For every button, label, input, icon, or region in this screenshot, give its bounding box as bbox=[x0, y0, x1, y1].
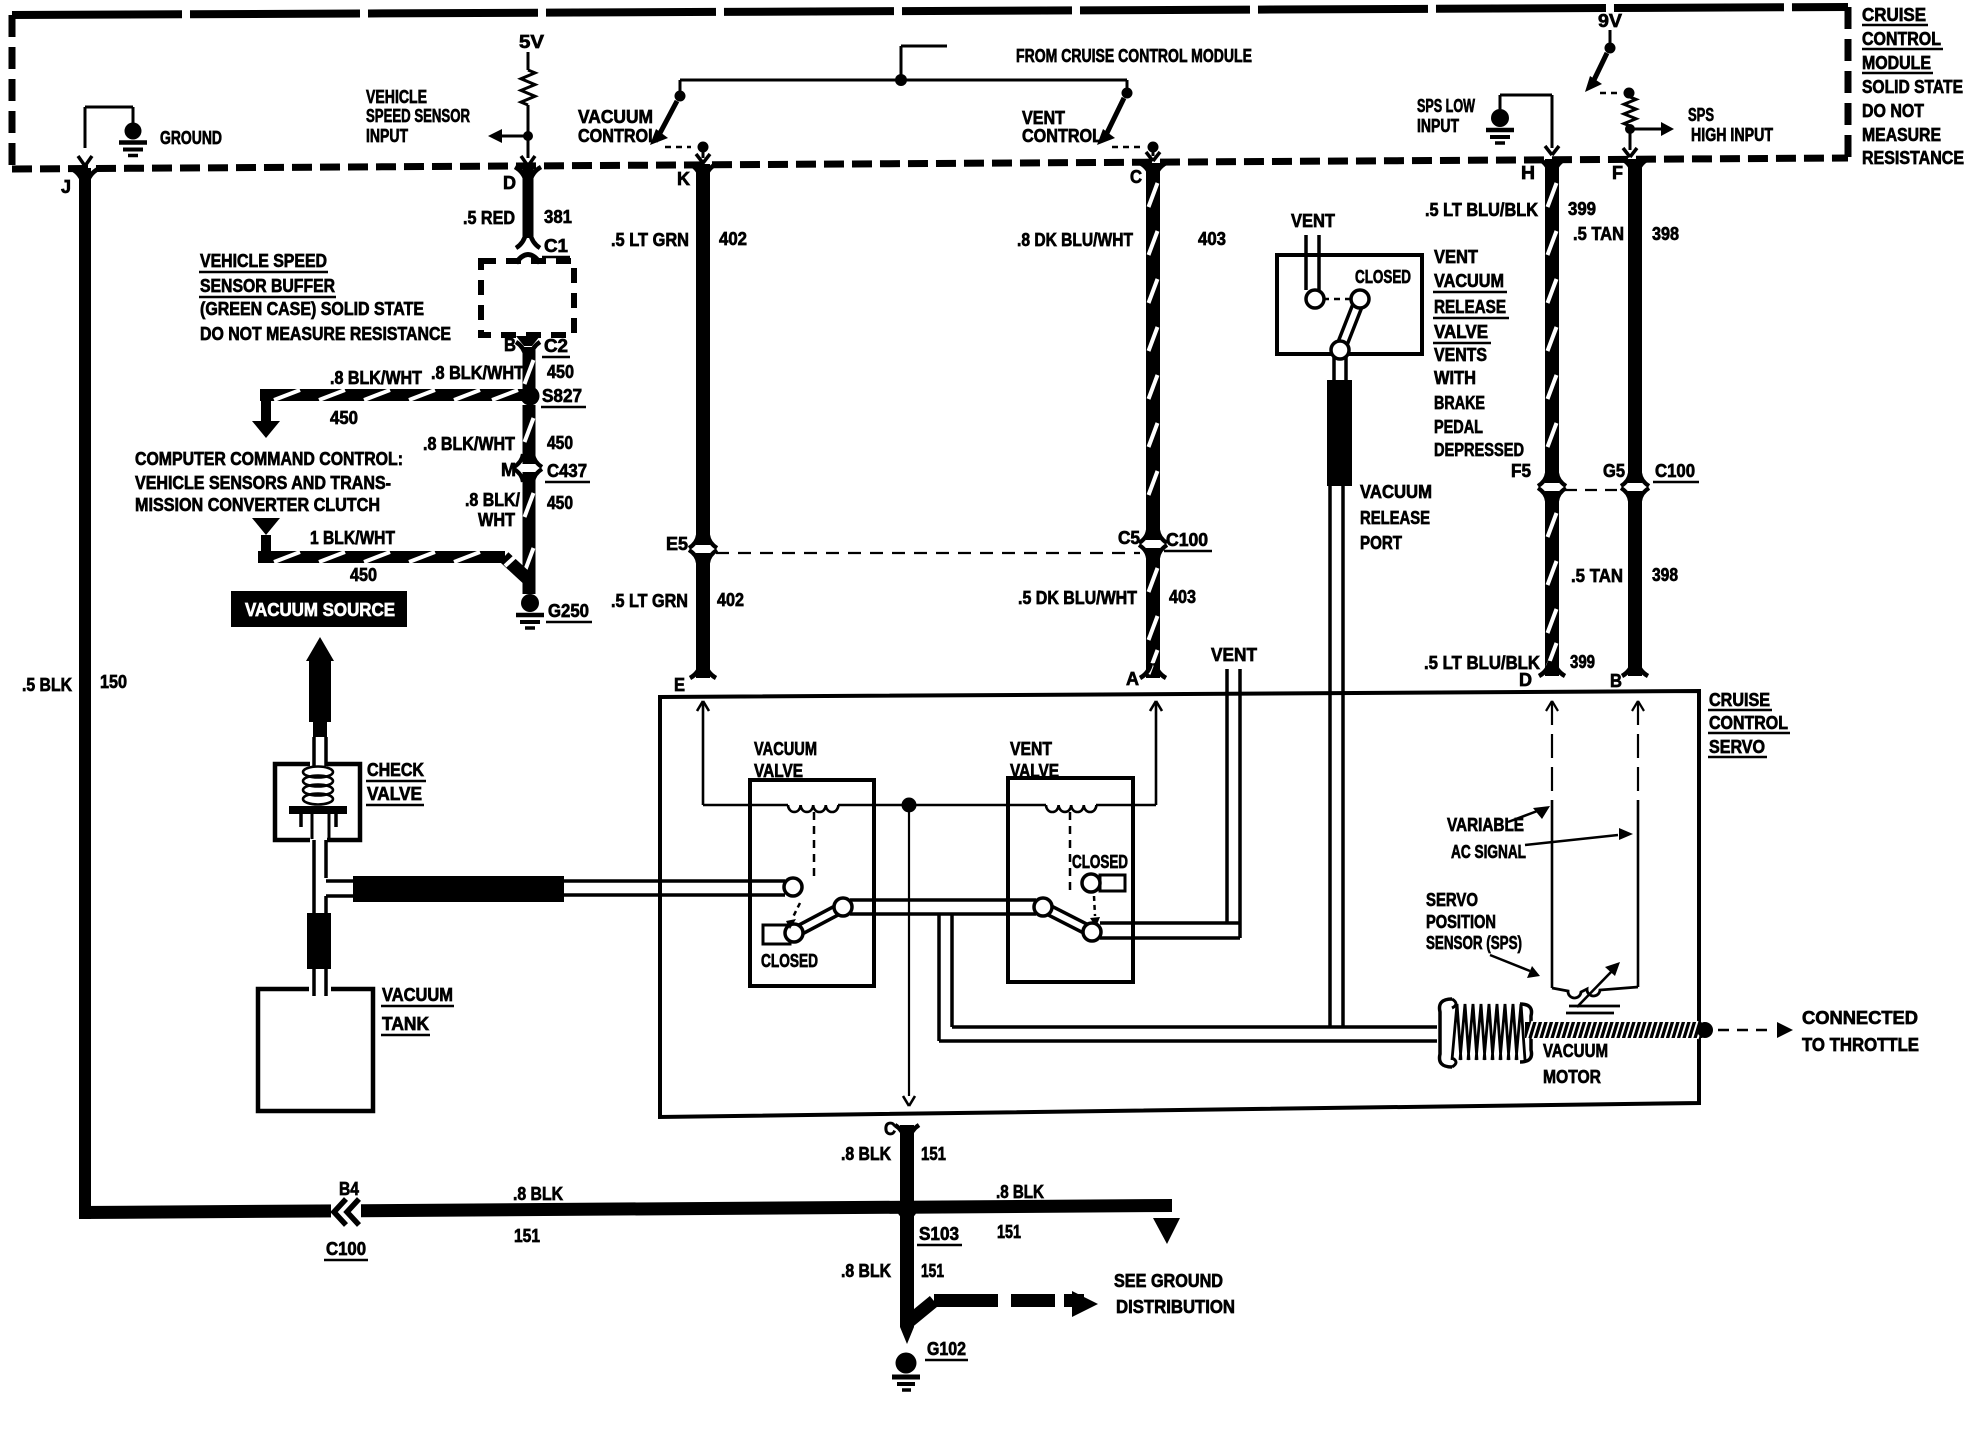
vehicle speed sensor buffer box bbox=[481, 261, 574, 335]
svg-text:.5 TAN: .5 TAN bbox=[1573, 224, 1624, 244]
connector G5 C100 bbox=[1603, 461, 1699, 501]
ground symbol module bbox=[78, 107, 222, 166]
terminal F bbox=[1612, 159, 1648, 183]
svg-text:VENT: VENT bbox=[1010, 739, 1052, 759]
svg-text:SPEED SENSOR: SPEED SENSOR bbox=[366, 106, 470, 126]
svg-text:E: E bbox=[674, 675, 685, 695]
svg-text:DEPRESSED: DEPRESSED bbox=[1434, 440, 1524, 460]
vent valve mechanism bbox=[1043, 852, 1128, 932]
wire 450 1 BLK/WHT horizontal from computer command control bbox=[252, 518, 530, 585]
svg-text:INPUT: INPUT bbox=[366, 126, 408, 146]
svg-text:POSITION: POSITION bbox=[1426, 912, 1496, 932]
svg-text:CONTROL: CONTROL bbox=[1022, 126, 1102, 146]
svg-text:C100: C100 bbox=[1166, 530, 1208, 550]
vehicle speed sensor input arrow bbox=[366, 87, 535, 166]
computer command control text bbox=[135, 449, 403, 515]
wire 399 .5 LT BLU/BLK upper bbox=[1425, 159, 1596, 483]
svg-text:B: B bbox=[1610, 671, 1622, 691]
ground G250 bbox=[516, 594, 592, 628]
connector C5 C100 bbox=[1118, 528, 1212, 558]
ground SPS low input bbox=[1417, 95, 1559, 155]
svg-text:RESISTANCE: RESISTANCE bbox=[1862, 148, 1964, 168]
connector C2 terminal B bbox=[504, 335, 570, 357]
svg-text:DO NOT MEASURE RESISTANCE: DO NOT MEASURE RESISTANCE bbox=[200, 324, 451, 344]
wire 151 right end arrow bbox=[1153, 1218, 1180, 1244]
svg-text:F5: F5 bbox=[1511, 461, 1531, 481]
vent vacuum release valve box bbox=[1277, 211, 1422, 354]
svg-text:.8 BLK/WHT: .8 BLK/WHT bbox=[431, 363, 524, 383]
svg-text:.8 BLK: .8 BLK bbox=[513, 1184, 563, 1204]
wire 450 .8 BLK/WHT (C437 to G250) bbox=[465, 472, 573, 594]
svg-text:CONTROL: CONTROL bbox=[1862, 29, 1941, 49]
svg-text:CRUISE: CRUISE bbox=[1862, 5, 1926, 25]
svg-text:151: 151 bbox=[514, 1226, 540, 1246]
svg-text:399: 399 bbox=[1568, 199, 1596, 219]
svg-text:.5 BLK: .5 BLK bbox=[22, 675, 72, 695]
svg-text:E5: E5 bbox=[666, 534, 688, 554]
svg-text:MEASURE: MEASURE bbox=[1862, 125, 1941, 145]
svg-text:C: C bbox=[884, 1119, 896, 1139]
svg-text:A: A bbox=[1126, 669, 1139, 689]
svg-text:MODULE: MODULE bbox=[1862, 53, 1931, 73]
svg-text:450: 450 bbox=[350, 565, 377, 585]
svg-text:VACUUM: VACUUM bbox=[1434, 271, 1504, 291]
svg-text:WITH: WITH bbox=[1434, 368, 1476, 388]
module label text bbox=[1862, 5, 1964, 168]
svg-text:.5 LT GRN: .5 LT GRN bbox=[611, 591, 688, 611]
svg-text:H: H bbox=[1521, 163, 1535, 183]
wire from cruise control module bbox=[680, 46, 1252, 86]
vacuum tank bbox=[258, 985, 454, 1111]
switch 9V SPS bbox=[1585, 11, 1773, 157]
connector E5 bbox=[666, 534, 717, 563]
svg-text:.8 BLK: .8 BLK bbox=[841, 1144, 891, 1164]
switch vacuum control bbox=[578, 80, 710, 163]
svg-text:D: D bbox=[503, 173, 516, 193]
vacuum release hose bbox=[1327, 380, 1352, 486]
svg-text:C2: C2 bbox=[544, 336, 568, 356]
svg-text:HIGH INPUT: HIGH INPUT bbox=[1691, 125, 1773, 145]
servo position sensor label bbox=[1426, 890, 1540, 978]
svg-text:C5: C5 bbox=[1118, 528, 1140, 548]
svg-text:CONTROL: CONTROL bbox=[578, 126, 658, 146]
svg-text:RELEASE: RELEASE bbox=[1360, 508, 1430, 528]
terminal C bbox=[1130, 163, 1166, 187]
svg-text:VEHICLE SPEED: VEHICLE SPEED bbox=[200, 251, 327, 271]
svg-text:403: 403 bbox=[1169, 587, 1196, 607]
valve pivot and closed contact bbox=[1306, 267, 1411, 381]
wire 402 .5 LT GRN lower bbox=[611, 553, 744, 678]
svg-text:TANK: TANK bbox=[382, 1014, 429, 1034]
terminal J bbox=[61, 169, 98, 197]
wire servo ground to C bbox=[903, 812, 915, 1106]
node coil junction bbox=[902, 798, 917, 813]
svg-text:CONTROL: CONTROL bbox=[1709, 713, 1788, 733]
solenoid vacuum valve bbox=[750, 739, 874, 986]
svg-text:.5 TAN: .5 TAN bbox=[1571, 566, 1623, 586]
svg-text:C100: C100 bbox=[326, 1239, 366, 1259]
wire C servo to S103 bbox=[841, 1119, 946, 1206]
svg-text:402: 402 bbox=[717, 590, 744, 610]
solenoid vent valve bbox=[1008, 739, 1133, 982]
wire 403 .8 DK BLU/WHT upper bbox=[1017, 163, 1226, 540]
resistor 5V pullup bbox=[519, 32, 544, 158]
servo position sensor wires D and B bbox=[1546, 701, 1644, 988]
svg-text:B4: B4 bbox=[339, 1179, 359, 1199]
terminal D bbox=[503, 167, 541, 193]
svg-text:450: 450 bbox=[330, 408, 358, 428]
terminal E servo bbox=[674, 663, 716, 695]
wire 399 .5 LT BLU/BLK lower bbox=[1424, 491, 1595, 676]
svg-text:CLOSED: CLOSED bbox=[761, 951, 818, 971]
connector C1 bbox=[516, 233, 570, 263]
svg-text:.8 DK BLU/WHT: .8 DK BLU/WHT bbox=[1017, 230, 1133, 250]
terminal H bbox=[1521, 159, 1565, 183]
wire 151 S103 down to G102 bbox=[841, 1213, 944, 1344]
svg-text:151: 151 bbox=[921, 1144, 946, 1164]
svg-text:.8 BLK/WHT: .8 BLK/WHT bbox=[423, 434, 515, 454]
splice S103 bbox=[897, 1199, 962, 1245]
tube check valve to vacuum valve port bbox=[564, 878, 802, 896]
svg-text:.5 LT BLU/BLK: .5 LT BLU/BLK bbox=[1425, 200, 1538, 220]
wire 398 .5 TAN upper bbox=[1573, 159, 1679, 483]
svg-text:J: J bbox=[61, 177, 71, 197]
svg-text:CRUISE: CRUISE bbox=[1709, 690, 1770, 710]
vacuum release port tube bbox=[1330, 482, 1432, 1027]
svg-text:VARIABLE: VARIABLE bbox=[1447, 815, 1524, 835]
svg-text:MOTOR: MOTOR bbox=[1543, 1067, 1601, 1087]
svg-text:SOLID STATE: SOLID STATE bbox=[1862, 77, 1963, 97]
connector C100 B4 bbox=[324, 1179, 368, 1260]
cruise control servo box bbox=[660, 690, 1790, 1117]
svg-text:450: 450 bbox=[547, 493, 573, 513]
svg-text:G5: G5 bbox=[1603, 461, 1625, 481]
svg-text:.8 BLK: .8 BLK bbox=[996, 1182, 1044, 1202]
svg-text:SERVO: SERVO bbox=[1426, 890, 1478, 910]
svg-text:MISSION CONVERTER CLUTCH: MISSION CONVERTER CLUTCH bbox=[135, 495, 380, 515]
svg-text:VACUUM: VACUUM bbox=[382, 985, 453, 1005]
svg-text:.8 BLK/WHT: .8 BLK/WHT bbox=[330, 368, 422, 388]
connector C437 terminal M bbox=[501, 454, 590, 482]
svg-text:150: 150 bbox=[100, 672, 127, 692]
tube vacuum valve to vent valve bbox=[834, 898, 1052, 916]
svg-text:F: F bbox=[1612, 163, 1623, 183]
svg-text:G250: G250 bbox=[548, 601, 589, 621]
wire 450 .8 BLK/WHT (C2 to S827) bbox=[431, 347, 574, 392]
wire 398 .5 TAN lower bbox=[1571, 491, 1678, 676]
vent pipe bbox=[1211, 645, 1257, 938]
servo position sensor element bbox=[1552, 962, 1638, 1013]
vacuum source arrow bbox=[306, 637, 334, 661]
svg-text:M: M bbox=[501, 460, 516, 480]
svg-text:PORT: PORT bbox=[1360, 533, 1402, 553]
vacuum hose to servo bbox=[353, 876, 564, 902]
svg-text:SPS: SPS bbox=[1688, 105, 1714, 125]
splice S827 bbox=[521, 386, 587, 407]
svg-text:CHECK: CHECK bbox=[367, 760, 424, 780]
vacuum motor bbox=[1440, 999, 1609, 1087]
switch vent control bbox=[1022, 80, 1160, 161]
connector F5 bbox=[1511, 461, 1566, 501]
svg-text:SPS LOW: SPS LOW bbox=[1417, 96, 1475, 116]
svg-text:C437: C437 bbox=[547, 461, 587, 481]
tube down to tank bbox=[314, 878, 326, 913]
svg-text:450: 450 bbox=[547, 362, 574, 382]
svg-text:G102: G102 bbox=[927, 1339, 966, 1359]
terminal K bbox=[677, 164, 716, 189]
svg-text:402: 402 bbox=[719, 229, 747, 249]
svg-text:SERVO: SERVO bbox=[1709, 737, 1765, 757]
svg-text:VENT: VENT bbox=[1022, 108, 1065, 128]
svg-text:VALVE: VALVE bbox=[367, 784, 422, 804]
svg-text:B: B bbox=[504, 335, 516, 355]
svg-text:398: 398 bbox=[1652, 224, 1679, 244]
vacuum hose upper bbox=[309, 660, 331, 766]
wire servo coil line E to A bbox=[697, 701, 1162, 812]
ground G102 bbox=[892, 1339, 968, 1390]
svg-text:381: 381 bbox=[544, 207, 572, 227]
tube tee to servo bbox=[326, 881, 353, 896]
svg-text:VACUUM: VACUUM bbox=[578, 107, 653, 127]
variable ac signal label bbox=[1447, 806, 1633, 862]
terminal B servo bbox=[1610, 661, 1648, 691]
svg-text:BRAKE: BRAKE bbox=[1434, 393, 1485, 413]
wire 402 .5 LT GRN upper bbox=[611, 164, 747, 545]
svg-text:INPUT: INPUT bbox=[1417, 116, 1459, 136]
check valve bbox=[275, 760, 426, 840]
svg-text:TO THROTTLE: TO THROTTLE bbox=[1802, 1035, 1919, 1055]
svg-text:S827: S827 bbox=[542, 386, 582, 406]
wire 450 .8 BLK/WHT (S827 to C437) bbox=[423, 405, 573, 464]
svg-text:CLOSED: CLOSED bbox=[1072, 852, 1128, 872]
svg-text:(GREEN CASE) SOLID STATE: (GREEN CASE) SOLID STATE bbox=[200, 299, 424, 319]
svg-text:WHT: WHT bbox=[478, 510, 515, 530]
tube vent valve to vent pipe bbox=[1083, 923, 1240, 941]
svg-text:VENT: VENT bbox=[1291, 211, 1335, 231]
wire 450 .8 BLK/WHT horizontal to computer command control bbox=[252, 368, 523, 438]
wire 150 .5 BLK (J) bbox=[22, 168, 127, 1219]
tube into tank bbox=[314, 969, 326, 996]
terminal D servo bbox=[1519, 661, 1565, 690]
wire 403 .5 DK BLU/WHT lower bbox=[1018, 548, 1196, 678]
svg-text:450: 450 bbox=[547, 433, 573, 453]
svg-text:VENT: VENT bbox=[1434, 247, 1478, 267]
svg-text:D: D bbox=[1519, 670, 1532, 690]
svg-text:VACUUM: VACUUM bbox=[1543, 1041, 1608, 1061]
cruise control module box bbox=[12, 7, 1848, 169]
svg-text:1 BLK/WHT: 1 BLK/WHT bbox=[310, 528, 395, 548]
wire 151 labels left bbox=[513, 1184, 563, 1246]
svg-text:C: C bbox=[1130, 167, 1142, 187]
svg-text:C1: C1 bbox=[544, 236, 568, 256]
svg-text:SENSOR (SPS): SENSOR (SPS) bbox=[1426, 933, 1522, 953]
svg-text:FROM CRUISE CONTROL MODULE: FROM CRUISE CONTROL MODULE bbox=[1016, 46, 1252, 66]
svg-text:RELEASE: RELEASE bbox=[1434, 297, 1506, 317]
svg-text:C100: C100 bbox=[1655, 461, 1695, 481]
throttle actuator rod bbox=[1525, 1008, 1919, 1055]
vent vacuum release valve label bbox=[1433, 247, 1524, 460]
buffer label text bbox=[199, 251, 451, 344]
wire see ground distribution bbox=[906, 1271, 1235, 1324]
svg-text:.8 BLK: .8 BLK bbox=[841, 1261, 891, 1281]
svg-text:.8 BLK/: .8 BLK/ bbox=[465, 490, 520, 510]
dashed line C100 connector plane (F5 to G5) bbox=[1565, 489, 1625, 491]
svg-text:403: 403 bbox=[1198, 229, 1226, 249]
svg-text:VENTS: VENTS bbox=[1434, 345, 1487, 365]
svg-text:VACUUM SOURCE: VACUUM SOURCE bbox=[245, 600, 395, 620]
svg-text:.5 LT GRN: .5 LT GRN bbox=[611, 230, 689, 250]
svg-text:CLOSED: CLOSED bbox=[1355, 267, 1411, 287]
svg-text:DISTRIBUTION: DISTRIBUTION bbox=[1116, 1297, 1235, 1317]
dashed line C100 connector plane (E5 to C5) bbox=[716, 552, 1140, 554]
wire 381 .5 RED bbox=[463, 167, 572, 238]
svg-text:VACUUM: VACUUM bbox=[1360, 482, 1432, 502]
svg-text:VENT: VENT bbox=[1211, 645, 1257, 665]
svg-text:VEHICLE: VEHICLE bbox=[366, 87, 427, 107]
svg-text:.5 DK BLU/WHT: .5 DK BLU/WHT bbox=[1018, 588, 1137, 608]
terminal A servo bbox=[1126, 663, 1166, 689]
svg-text:151: 151 bbox=[997, 1222, 1021, 1242]
vacuum hose lower bbox=[307, 913, 331, 969]
svg-text:GROUND: GROUND bbox=[160, 128, 222, 148]
svg-text:S103: S103 bbox=[919, 1224, 959, 1244]
svg-text:PEDAL: PEDAL bbox=[1434, 417, 1483, 437]
svg-text:9V: 9V bbox=[1598, 11, 1622, 31]
svg-text:398: 398 bbox=[1652, 565, 1678, 585]
wire 150 bottom horizontal bbox=[80, 1199, 1172, 1219]
vacuum valve mechanism bbox=[761, 903, 843, 971]
svg-text:399: 399 bbox=[1570, 652, 1595, 672]
svg-text:VACUUM: VACUUM bbox=[754, 739, 817, 759]
tube check valve down bbox=[314, 840, 326, 878]
svg-text:K: K bbox=[677, 169, 690, 189]
wire 151 labels right bbox=[996, 1182, 1044, 1242]
svg-text:SEE GROUND: SEE GROUND bbox=[1114, 1271, 1223, 1291]
svg-text:DO NOT: DO NOT bbox=[1862, 101, 1924, 121]
svg-text:SENSOR BUFFER: SENSOR BUFFER bbox=[200, 276, 335, 296]
svg-text:AC SIGNAL: AC SIGNAL bbox=[1451, 842, 1526, 862]
svg-text:VALVE: VALVE bbox=[1434, 322, 1488, 342]
svg-text:VEHICLE SENSORS AND TRANS-: VEHICLE SENSORS AND TRANS- bbox=[135, 473, 391, 493]
svg-text:CONNECTED: CONNECTED bbox=[1802, 1008, 1918, 1028]
tube to vacuum motor bbox=[939, 915, 1437, 1041]
svg-text:5V: 5V bbox=[519, 32, 544, 52]
svg-text:151: 151 bbox=[921, 1261, 944, 1281]
vacuum source label bbox=[231, 591, 407, 627]
svg-text:COMPUTER COMMAND CONTROL:: COMPUTER COMMAND CONTROL: bbox=[135, 449, 403, 469]
svg-text:.5 RED: .5 RED bbox=[463, 208, 515, 228]
